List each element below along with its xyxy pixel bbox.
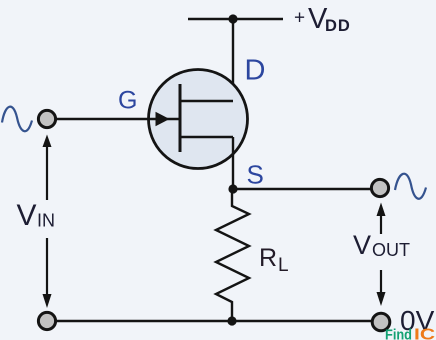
label RL	[259, 244, 289, 276]
output terminal	[371, 179, 388, 196]
svg-text:OUT: OUT	[372, 240, 410, 260]
junction source node S	[228, 184, 237, 193]
output sine waveform	[395, 174, 426, 199]
label VIN	[17, 199, 56, 232]
svg-text:R: R	[259, 244, 277, 272]
transistor Q1 N-channel MOSFET body circle	[149, 70, 248, 169]
VIN measurement arrow lower (points down)	[43, 238, 52, 308]
ground terminal right	[372, 313, 390, 331]
svg-text:IC: IC	[414, 327, 436, 340]
junction drain to VDD rail	[228, 14, 237, 23]
wire source (S) vertical	[232, 137, 234, 189]
VOUT measurement arrow lower (points down)	[377, 270, 386, 306]
svg-text:D: D	[245, 55, 266, 87]
svg-text:+: +	[294, 8, 305, 29]
svg-text:V: V	[17, 199, 37, 232]
wire ground rail 0V	[55, 320, 372, 322]
svg-text:S: S	[247, 159, 264, 189]
input source sine waveform	[2, 107, 32, 132]
input terminal	[38, 110, 55, 127]
resistor RL (zigzag)	[216, 189, 249, 321]
svg-text:DD: DD	[325, 17, 351, 35]
svg-text:V: V	[353, 230, 371, 260]
label VOUT	[353, 230, 410, 260]
transistor Q1 gate bar	[179, 84, 182, 152]
VIN measurement arrow upper (points up)	[43, 135, 52, 201]
junction resistor to ground rail	[227, 316, 236, 325]
wire drain (D) vertical	[232, 19, 234, 101]
transistor Q1 source bar	[180, 136, 233, 139]
transistor Q1 drain bar	[180, 100, 233, 103]
gate arrowhead	[156, 112, 170, 126]
svg-text:G: G	[118, 86, 137, 114]
ground terminal left	[38, 312, 55, 329]
VOUT measurement arrow upper (points up)	[377, 203, 386, 235]
wire output from S node to output terminal	[233, 188, 371, 190]
logo FindIC	[385, 327, 436, 340]
wire VDD top rail	[188, 18, 283, 20]
svg-text:Find: Find	[385, 327, 412, 340]
svg-text:L: L	[278, 255, 289, 276]
label +VDD	[294, 3, 351, 35]
svg-text:IN: IN	[37, 211, 55, 231]
wire gate from input terminal	[55, 118, 179, 120]
